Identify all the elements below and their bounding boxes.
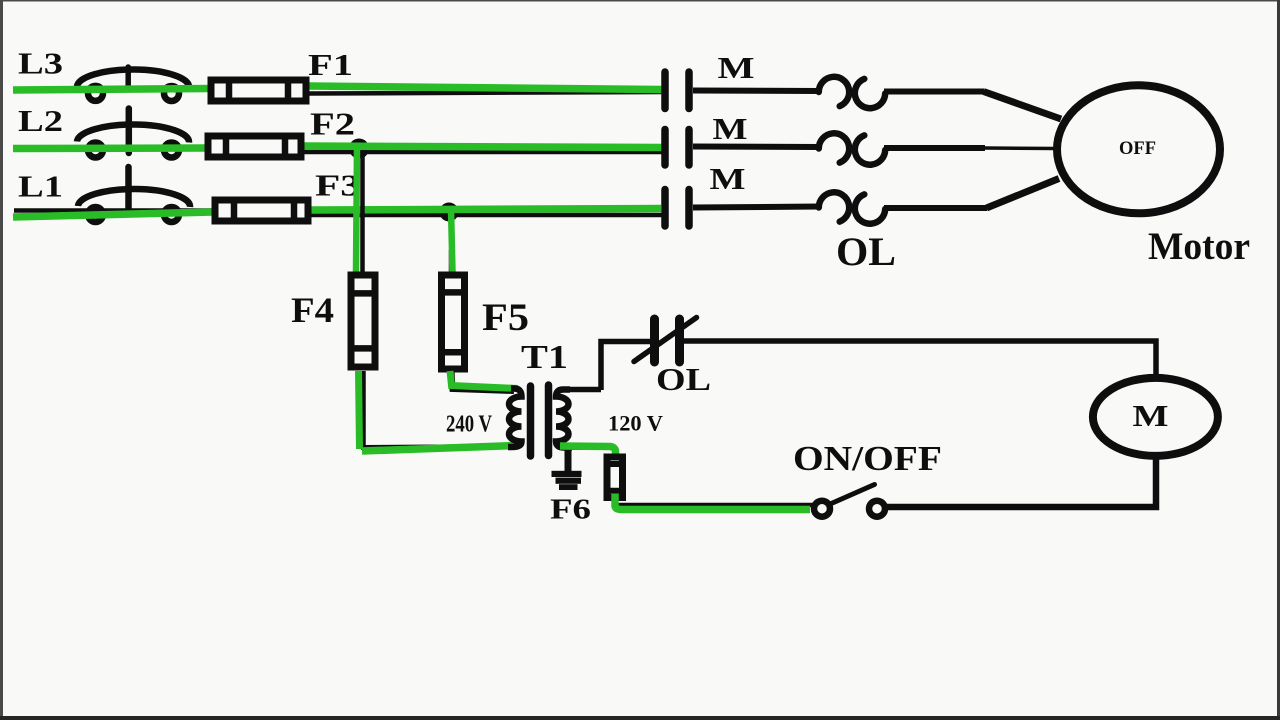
contact M pole 1 — [665, 72, 689, 109]
label OL power — [836, 229, 896, 274]
svg-text:ON/OFF: ON/OFF — [793, 439, 942, 478]
label M pole 3 — [710, 161, 746, 196]
svg-text:240 V: 240 V — [446, 412, 493, 438]
wire L3 left green segment — [13, 89, 210, 91]
switch terminal right — [869, 501, 885, 517]
T1 core bars — [531, 385, 549, 456]
wire row2 thin into motor — [985, 146, 1056, 150]
wire drop to F5 black — [449, 250, 454, 273]
wire drop to F5 green — [451, 209, 453, 272]
svg-text:OL: OL — [836, 229, 896, 274]
svg-text:Motor: Motor — [1148, 225, 1250, 268]
node junction dot on L2 — [349, 139, 369, 159]
contact M pole 3 — [665, 190, 689, 227]
wire L3 right black segment — [309, 92, 664, 94]
label M coil — [1133, 398, 1169, 433]
wire OL2 to motor middle — [884, 145, 985, 151]
switch ON/OFF lever — [821, 485, 875, 509]
svg-text:OFF: OFF — [1119, 138, 1156, 159]
wire coil bottom to switch — [884, 456, 1156, 507]
node junction dot on L1 — [440, 203, 459, 222]
wire L2 right black segment — [304, 150, 664, 155]
wire contact2 to OL2 — [693, 144, 820, 151]
wire T1 secondary top riser — [601, 342, 653, 391]
wire bend to motor top — [984, 92, 1062, 120]
wire OL contact to coil corner — [684, 341, 1156, 378]
svg-text:120 V: 120 V — [608, 411, 663, 436]
fuse F2 — [208, 133, 301, 160]
label L1 — [18, 169, 63, 204]
svg-text:L3: L3 — [18, 46, 63, 81]
contact M pole 2 — [665, 130, 689, 166]
svg-text:F1: F1 — [308, 47, 353, 82]
label F5 — [482, 295, 529, 339]
overload heater OL2 — [819, 133, 885, 164]
wire secondary bottom green — [560, 446, 616, 462]
ground symbol — [552, 471, 582, 490]
circuit breaker pole L2 — [77, 109, 189, 158]
svg-text:M: M — [710, 161, 746, 196]
wire OL1 to bend — [884, 89, 984, 95]
fuse F5 — [438, 275, 468, 369]
T1 primary winding — [508, 389, 522, 448]
wire secondary top to riser — [566, 387, 601, 393]
overload heater OL3 — [819, 192, 885, 223]
fuse F1 — [211, 77, 306, 104]
wire F5 bottom green — [450, 371, 518, 389]
svg-text:F5: F5 — [482, 295, 529, 339]
T1 secondary winding — [556, 390, 572, 448]
wire secondary bottom to F6 black — [566, 445, 612, 450]
motor circle — [1057, 85, 1220, 213]
svg-text:M: M — [713, 111, 748, 146]
svg-text:F2: F2 — [310, 106, 355, 142]
circuit breaker pole L1 — [78, 167, 190, 222]
svg-text:F4: F4 — [291, 290, 334, 330]
wire L1 left black segment — [14, 208, 213, 213]
label L3 — [18, 46, 63, 81]
label OFF inside motor — [1119, 138, 1156, 159]
wire primary bottom green horizontal — [362, 446, 516, 452]
svg-text:L2: L2 — [18, 103, 63, 138]
wire F4 bottom black drop — [361, 371, 366, 450]
wire L1 right green segment — [311, 209, 661, 211]
fuse F4 — [348, 275, 378, 367]
label F1 — [308, 47, 353, 82]
coil M — [1093, 378, 1218, 456]
label M pole 1 — [718, 50, 755, 85]
svg-text:M: M — [1133, 398, 1169, 433]
wire L3 right green segment — [309, 86, 662, 90]
label T1 — [521, 339, 568, 376]
wire F4 bottom green drop — [359, 371, 360, 449]
wire L1 right black segment — [311, 213, 662, 218]
svg-text:T1: T1 — [521, 339, 568, 376]
svg-text:OL: OL — [656, 361, 711, 397]
label 120 V — [608, 411, 663, 436]
wire F5 bottom black — [452, 371, 515, 391]
wire drop to F4 green — [356, 146, 357, 272]
label OL control — [656, 361, 711, 397]
switch terminal left — [814, 501, 830, 517]
label L2 — [18, 103, 63, 138]
label F4 — [291, 290, 334, 330]
fuse F3 — [215, 197, 308, 224]
label Motor — [1148, 225, 1250, 268]
svg-text:L1: L1 — [18, 169, 63, 204]
wire OL3 to bend — [884, 205, 987, 211]
wire L1 left green segment — [13, 212, 213, 217]
wire contact3 to OL3 — [693, 207, 820, 208]
svg-text:F6: F6 — [550, 494, 591, 526]
contact OL normally closed — [634, 318, 697, 363]
label M pole 2 — [713, 111, 748, 146]
label F3 — [315, 168, 361, 203]
label ON/OFF — [793, 439, 942, 478]
wire primary bottom black horizontal — [363, 447, 512, 448]
wire drop to F4 black — [360, 150, 365, 272]
ground stem — [565, 448, 572, 471]
wire F6 to switch green — [615, 494, 810, 510]
svg-text:M: M — [718, 50, 755, 85]
label 240 V — [446, 412, 493, 438]
label F2 — [310, 106, 355, 142]
overload heater OL1 — [819, 77, 885, 108]
fuse F6 — [604, 457, 625, 498]
wire bend to motor bottom — [987, 179, 1060, 209]
wire contact1 to OL1 — [693, 88, 820, 95]
label F6 — [550, 494, 591, 526]
circuit breaker pole L3 — [77, 67, 189, 101]
wire L2 right green segment — [304, 146, 662, 148]
wire F6 to switch black — [618, 503, 813, 508]
wire L2 left green segment — [13, 144, 207, 152]
